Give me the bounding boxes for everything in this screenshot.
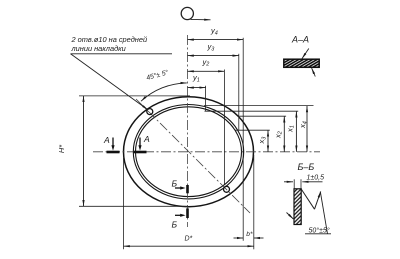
B-B 50deg label underline: [305, 233, 331, 235]
pad middle ellipse: [133, 105, 243, 199]
svg-text:1±0,5: 1±0,5: [307, 175, 325, 182]
leader note text: [71, 35, 148, 53]
leader line to hole 1: [71, 54, 148, 110]
B-B bevel left branch: [301, 189, 314, 209]
B-B width dim right arrow: [302, 181, 322, 183]
H* bottom extension line: [79, 205, 188, 207]
horizontal centerline: [93, 151, 320, 153]
y4 extension line: [242, 38, 244, 241]
section A right arrow: [139, 138, 141, 147]
leader shelf: [71, 53, 173, 55]
y2 extension line: [223, 70, 225, 185]
section A left thick trace: [107, 151, 120, 154]
D* dimension line: [124, 245, 254, 247]
y3 dimension line: [188, 55, 239, 57]
B-B bottom-left thickness leader: [287, 213, 294, 220]
diagonal centerline 45deg: [136, 99, 250, 213]
section B lower arrow: [175, 214, 182, 216]
top circle arrow: [191, 18, 211, 20]
svg-text:линии накладки: линии накладки: [71, 44, 126, 53]
svg-text:Б: Б: [172, 220, 178, 230]
section B upper arrow: [175, 187, 182, 189]
section B upper thick trace: [186, 185, 189, 193]
A-A top thickness leader: [302, 49, 309, 59]
section A right thick trace: [134, 151, 147, 154]
hole 2: [224, 186, 230, 192]
hole 1: [147, 109, 153, 115]
x2 dimension line: [283, 116, 285, 152]
x1 dimension line: [295, 111, 297, 152]
svg-text:Б: Б: [172, 179, 178, 189]
B-B right edge extension: [300, 179, 302, 189]
x3 dimension line: [267, 130, 269, 152]
svg-text:A: A: [143, 134, 150, 144]
B-B hatched bar: [294, 189, 301, 225]
H* dimension line: [83, 96, 85, 206]
b* dimension line right part: [254, 237, 264, 239]
svg-text:b*: b*: [246, 231, 253, 238]
B-B left edge extension: [293, 179, 295, 189]
svg-text:Б–Б: Б–Б: [298, 162, 315, 172]
B-B bevel right branch: [315, 192, 321, 210]
section A left arrow: [112, 138, 114, 147]
inner ellipse: [136, 107, 242, 197]
H* top extension line: [79, 95, 190, 97]
svg-text:D*: D*: [185, 235, 193, 242]
x4 extension line: [204, 105, 314, 107]
x1 extension line: [205, 110, 299, 112]
svg-text:H*: H*: [57, 144, 66, 153]
D* right extension line: [253, 155, 255, 249]
A-A hatched bar: [284, 59, 319, 67]
top rotated-view circle: [181, 7, 193, 19]
y3 extension line: [238, 54, 240, 130]
y1 dimension line: [188, 87, 206, 89]
y4 dimension line: [188, 39, 244, 41]
B-B width dim left arrow: [284, 181, 293, 183]
svg-text:A–A: A–A: [291, 35, 309, 45]
A-A bottom thickness leader: [312, 68, 316, 77]
outer ellipse: [124, 97, 254, 207]
x4 dimension line: [306, 106, 308, 152]
svg-text:A: A: [103, 135, 110, 145]
D* left extension line: [123, 158, 125, 249]
x2 extension line: [240, 115, 287, 117]
x3 extension line: [235, 129, 270, 131]
svg-text:50°±5°: 50°±5°: [309, 227, 330, 235]
section B lower thick trace: [186, 208, 189, 218]
B-B 50deg leader line: [320, 192, 327, 234]
angular dim 45deg arc: [141, 83, 187, 101]
b* dimension line left part: [234, 237, 244, 239]
y2 dimension line: [188, 70, 225, 72]
svg-text:2 отв.ø10 на средней: 2 отв.ø10 на средней: [71, 35, 148, 44]
y1 extension line: [205, 86, 207, 111]
vertical centerline: [187, 35, 189, 227]
